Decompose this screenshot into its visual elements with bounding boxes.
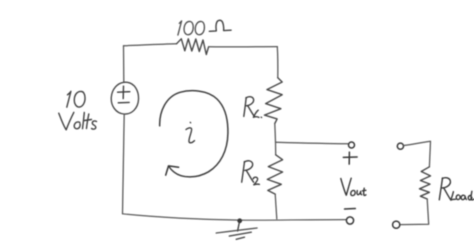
label Volts xyxy=(59,112,97,129)
resistor R1 zigzag xyxy=(264,78,282,124)
wire R2 to bottom xyxy=(275,194,277,219)
loop current arc xyxy=(160,91,228,177)
wire left vertical bottom xyxy=(123,114,125,214)
resistor 100Ω zigzag xyxy=(177,39,209,55)
wire junction to R2 xyxy=(275,142,277,155)
wire Rload bottom xyxy=(400,199,429,225)
terminal Rload top xyxy=(397,143,403,149)
terminal Vout+ xyxy=(349,142,355,148)
label R1 xyxy=(244,97,262,118)
label R2 xyxy=(242,161,260,185)
wire bottom horizontal xyxy=(123,214,346,220)
ground bar 3 xyxy=(236,237,244,239)
ground stem xyxy=(238,223,240,232)
wire Rload top xyxy=(404,141,431,167)
terminal Vout- xyxy=(346,217,353,224)
label 100 xyxy=(178,21,205,35)
resistor Rload zigzag xyxy=(420,167,431,199)
label Ω xyxy=(209,20,231,31)
label plus Vout xyxy=(343,152,357,164)
wire right vertical to R1 xyxy=(276,47,279,78)
ground bar 1 xyxy=(216,228,257,233)
wire top-right horizontal xyxy=(209,46,278,48)
ground bar 2 xyxy=(229,232,251,236)
loop arrowhead xyxy=(166,166,179,175)
wire left vertical top xyxy=(123,46,125,83)
voltage source minus xyxy=(118,101,129,103)
wire R1 to junction xyxy=(274,124,277,142)
voltage source plus xyxy=(118,86,130,98)
node junction to Vout+ wire xyxy=(276,142,349,144)
label Rload xyxy=(439,178,474,200)
label 10 xyxy=(67,91,85,107)
terminal Rload bottom xyxy=(393,221,400,228)
voltage source V1 circle xyxy=(111,82,138,114)
resistor R2 zigzag xyxy=(267,155,282,194)
wire top-left horizontal xyxy=(124,44,177,46)
ground dot xyxy=(237,218,242,223)
label i xyxy=(186,122,195,143)
label minus Vout xyxy=(345,208,356,211)
label Vout xyxy=(341,178,366,195)
